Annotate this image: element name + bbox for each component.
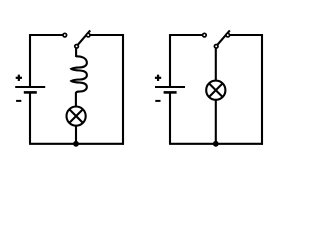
wire: right side [122,34,124,145]
wire: right side [261,34,263,145]
wire: left side lower (battery to bottom corner) [169,92,171,143]
switch S1 left terminal [63,33,67,37]
wire: top-right segment from switch to corner [230,34,262,36]
switch S1 pivot terminal [75,45,79,49]
lamp DS2 cross [209,83,223,97]
lamp DS1 cross [69,109,83,123]
wire: inductor to lamp [75,93,77,107]
lamp DS2 [206,81,225,100]
battery B2 negative plate [164,91,177,94]
wire: switch pivot down to inductor [75,48,77,57]
wire: bottom side [29,143,124,145]
wire: switch pivot down to lamp [215,48,217,80]
label + (battery B2) [155,75,161,81]
wire: top-left segment to switch terminal [170,34,202,36]
switch S2 left terminal [203,33,207,37]
switch S2 pivot terminal [214,45,218,49]
switch S2 lever [218,30,230,44]
switch S1 lever [78,30,90,44]
label + (battery B1) [16,75,22,81]
switch S2 right terminal [226,33,230,37]
junction node (left circuit bottom) [73,141,79,147]
lamp DS1 [67,107,86,126]
wire: left side lower (battery to bottom corner) [29,92,31,143]
label - (battery B2) [155,100,160,102]
junction node (right circuit bottom) [213,141,219,147]
wire: lamp to bottom [75,126,77,144]
battery B1 negative plate [24,91,37,94]
wire: lamp to bottom [215,100,217,144]
wire: left side upper (corner to battery) [169,34,171,87]
inductor L1 [71,56,87,93]
wire: top-right segment from switch to corner [90,34,123,36]
battery B1 positive plate [15,86,45,88]
wire: bottom side [169,143,263,145]
wire: top-left segment to switch terminal [30,34,63,36]
wire: left side upper (corner to battery) [29,34,31,87]
label - (battery B1) [16,100,21,102]
switch S1 right terminal [86,33,90,37]
battery B2 positive plate [155,86,185,88]
